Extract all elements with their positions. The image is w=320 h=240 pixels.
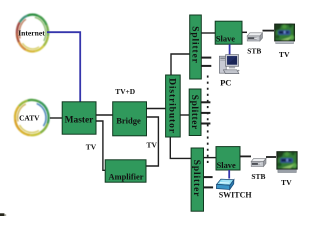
- svg-text:TV: TV: [86, 143, 97, 152]
- slave1 box: [215, 21, 242, 44]
- wire catv to master: [50, 117, 62, 119]
- svg-text:PC: PC: [220, 77, 231, 87]
- dotted continuation line: [207, 76, 209, 165]
- wire master to bridge: [96, 114, 113, 116]
- svg-text:Splitter: Splitter: [191, 160, 201, 197]
- svg-text:STB: STB: [247, 46, 261, 55]
- svg-text:Internet: Internet: [18, 29, 45, 38]
- splitter3 box (bottom): [191, 148, 203, 211]
- svg-text:Slave: Slave: [216, 35, 235, 44]
- slave2 box: [216, 147, 240, 170]
- svg-text:Bridge: Bridge: [116, 115, 141, 125]
- tv1 icon: [274, 24, 295, 44]
- splitter3 stub wires: [204, 176, 213, 178]
- svg-text:CATV: CATV: [19, 114, 40, 123]
- svg-text:STB: STB: [251, 172, 265, 181]
- svg-text:Slave: Slave: [217, 161, 236, 170]
- splitter2 box (middle): [189, 89, 201, 136]
- wire distributor to splitter1: [171, 54, 190, 75]
- amplifier box: [105, 160, 146, 182]
- wire stb1 to tv1: [263, 30, 275, 32]
- splitter1 stub wires: [201, 57, 211, 59]
- splitter1 box (top): [189, 15, 201, 79]
- pc icon: [219, 55, 239, 74]
- internet swirl icon: [17, 15, 48, 52]
- svg-text:SWITCH: SWITCH: [219, 190, 253, 199]
- svg-text:Distributor: Distributor: [167, 78, 178, 134]
- corner artifact: [0, 213, 6, 216]
- svg-text:Amplifier: Amplifier: [109, 173, 144, 182]
- svg-text:TV: TV: [279, 50, 290, 59]
- svg-text:TV: TV: [281, 178, 292, 187]
- wire splitter3 to slave2: [204, 157, 217, 159]
- catv swirl icon: [15, 100, 49, 135]
- wire slave2 to switch (blue): [228, 170, 230, 179]
- wire splitter1 to slave1: [201, 32, 215, 34]
- distributor box: [166, 75, 181, 137]
- splitter2 stub wires: [201, 101, 210, 103]
- svg-text:Splitter: Splitter: [189, 26, 199, 63]
- wire distributor to splitter2: [180, 114, 189, 116]
- master box: [62, 102, 96, 134]
- wire internet to master (blue): [47, 32, 80, 101]
- svg-text:TV: TV: [146, 141, 157, 150]
- wire slave1 to stb1: [242, 31, 247, 33]
- wire master down to amplifier: [96, 121, 105, 170]
- tv2 icon: [276, 151, 297, 172]
- svg-text:TV+D: TV+D: [115, 87, 135, 96]
- svg-text:Master: Master: [65, 116, 94, 126]
- stb1 icon: [247, 33, 262, 41]
- wire stb2 to tv2: [266, 156, 276, 158]
- wire bridge down to amplifier: [146, 117, 158, 166]
- svg-text:Splitter: Splitter: [189, 95, 199, 130]
- switch icon: [216, 179, 234, 189]
- stb2 icon: [251, 158, 266, 166]
- wire distributor to splitter3: [170, 137, 191, 158]
- wire slave2 to stb2: [240, 155, 251, 157]
- bridge box: [113, 102, 147, 136]
- wire bridge to distributor: [147, 108, 166, 110]
- wire slave1 to pc (blue): [229, 44, 231, 55]
